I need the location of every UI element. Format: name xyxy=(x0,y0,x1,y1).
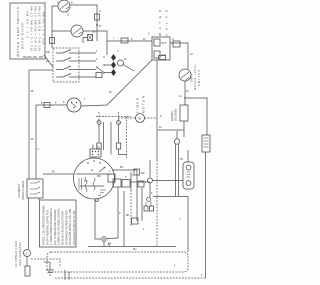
svg-text:(DOOR CLOSED): (DOOR CLOSED) xyxy=(22,181,25,200)
svg-text:EMPTY: EMPTY xyxy=(190,73,193,82)
svg-text:ATC W-C = WD-WA, ST-WA: ATC W-C = WD-WA, ST-WA xyxy=(39,6,42,51)
svg-text:BU: BU xyxy=(133,248,137,251)
svg-text:SOLENOID: SOLENOID xyxy=(175,108,178,121)
svg-text:BK-BLACK BU-BLUE GY-GRAY: BK-BLACK BU-BLUE GY-GRAY xyxy=(62,210,65,245)
svg-text:TIMER: TIMER xyxy=(136,97,140,113)
svg-text:C: C xyxy=(103,72,105,75)
svg-text:NOTES: 1. ALL SWITCHES SHOWN: NOTES: 1. ALL SWITCHES SHOWN xyxy=(43,205,46,245)
svg-text:CLD: CLD xyxy=(161,54,166,57)
svg-text:ST: ST xyxy=(84,180,88,183)
svg-text:D: D xyxy=(68,14,70,17)
svg-text:N: N xyxy=(103,64,105,67)
svg-text:LID SWITCH: LID SWITCH xyxy=(18,184,21,198)
svg-text:FRAME: FRAME xyxy=(68,271,71,280)
svg-text:TH: TH xyxy=(92,31,95,34)
svg-text:WATER LEVEL: WATER LEVEL xyxy=(194,63,197,90)
svg-text:TN-TAN WH-WHITE YL-YELLOW: TN-TAN WH-WHITE YL-YELLOW xyxy=(69,208,72,245)
svg-text:WH: WH xyxy=(39,56,43,59)
svg-text:SW-ATC-SW: SW-ATC-SW xyxy=(23,56,38,59)
svg-text:GY: GY xyxy=(98,194,102,197)
svg-text:CABINET: CABINET xyxy=(64,269,67,280)
svg-text:IN OFF POSITION, EMPTY TUB.: IN OFF POSITION, EMPTY TUB. xyxy=(46,209,49,245)
svg-text:3. WIRE COLOR CODE LEGEND:: 3. WIRE COLOR CODE LEGEND: xyxy=(58,208,61,245)
svg-text:BK: BK xyxy=(126,214,130,217)
svg-text:H: H xyxy=(103,56,105,59)
svg-text:G: G xyxy=(26,252,28,256)
svg-text:ATC H-C = HD-WA: ATC H-C = HD-WA xyxy=(43,12,46,44)
svg-text:OR-ORANGE PK-PINK RD-RED: OR-ORANGE PK-PINK RD-RED xyxy=(65,210,68,245)
svg-text:WASH-RINSE: WASH-RINSE xyxy=(21,23,25,49)
svg-text:C: C xyxy=(172,38,174,41)
svg-text:BU: BU xyxy=(120,166,124,169)
svg-text:TM: TM xyxy=(138,118,141,121)
svg-text:RD: RD xyxy=(141,172,145,175)
svg-text:HOT: HOT xyxy=(161,42,167,45)
svg-text:MN: MN xyxy=(97,175,101,178)
svg-text:(SEE SEPARATE): (SEE SEPARATE) xyxy=(19,242,22,266)
svg-text:ATC W-E = WD-WA, CF-WA: ATC W-E = WD-WA, CF-WA xyxy=(35,6,38,51)
svg-text:2. TIMER CONTACTS SHOWN IN: 2. TIMER CONTACTS SHOWN IN xyxy=(50,208,53,245)
svg-text:SWITCH: SWITCH xyxy=(198,70,201,86)
svg-text:OFF, CLOSE AS DIAL ROTATES.: OFF, CLOSE AS DIAL ROTATES. xyxy=(54,209,57,245)
svg-text:WATER TEMP SWITCH: WATER TEMP SWITCH xyxy=(16,7,20,57)
svg-text:GN-GREEN VT-VIOLET LV-LAV: GN-GREEN VT-VIOLET LV-LAV xyxy=(73,210,76,245)
svg-text:PK: PK xyxy=(180,158,184,161)
svg-text:C-E = HO-WA: C-E = HO-WA xyxy=(27,11,30,38)
svg-text:M: M xyxy=(91,169,93,172)
svg-text:AC POWER CORD: AC POWER CORD xyxy=(15,241,18,267)
svg-text:ATC C-E = HO-WA, CF-WA: ATC C-E = HO-WA, CF-WA xyxy=(31,6,34,51)
